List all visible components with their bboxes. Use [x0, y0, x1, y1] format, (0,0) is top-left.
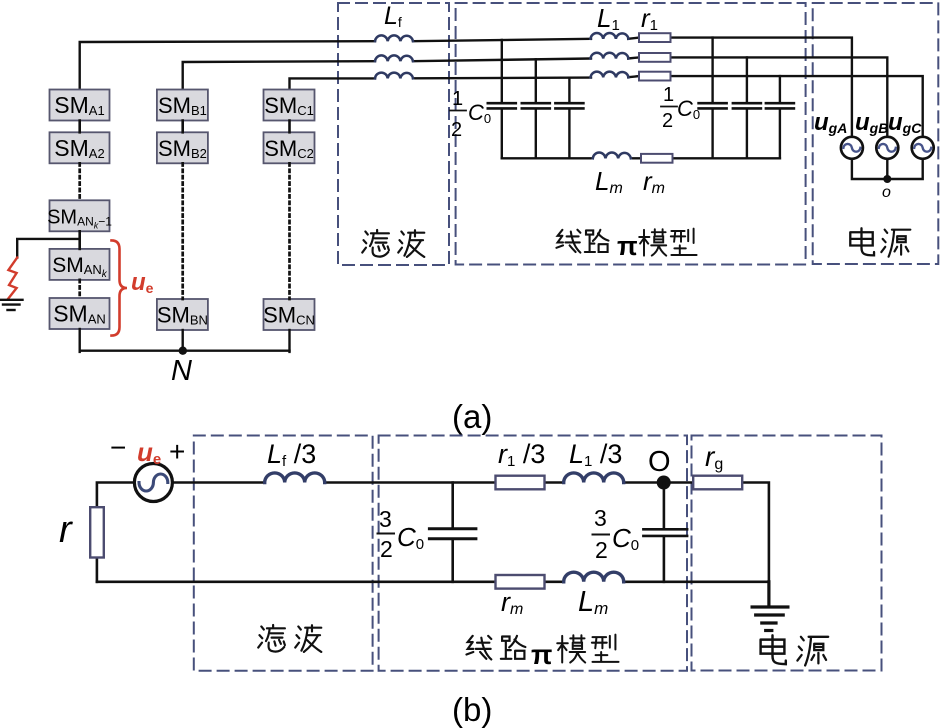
- SM column C box SMC1: [264, 90, 315, 121]
- svg-text:3: 3: [379, 506, 392, 532]
- section label: source (a): [850, 228, 874, 255]
- AC source ugB: [876, 137, 898, 159]
- wire SMB1-SMB2 link: [181, 121, 184, 133]
- ground symbol (a): [1, 300, 23, 310]
- inductor L1 phase C: [591, 72, 629, 78]
- wire capacitor bank 2 drop B: [746, 57, 748, 158]
- dotted link SMC2 to SMCN: [288, 163, 291, 299]
- svg-text:2: 2: [451, 119, 462, 141]
- label 1/2 C0 right: [661, 84, 700, 132]
- inductor Lf phase A: [375, 35, 413, 41]
- resistor r1/3 (b): [496, 476, 545, 490]
- svg-text:1: 1: [452, 88, 463, 110]
- resistor r (vertical, b): [90, 507, 104, 557]
- svg-text:Lm: Lm: [578, 586, 608, 618]
- node N dot: [179, 347, 187, 355]
- svg-text:Lf /3: Lf /3: [267, 439, 316, 470]
- resistor rm (b): [496, 575, 545, 589]
- section label: source (b): [761, 635, 786, 664]
- resistor r1 phase B: [639, 53, 671, 62]
- capacitor C0/2 bank1 C: [555, 103, 583, 108]
- svg-text:π: π: [531, 639, 552, 670]
- svg-text:ugB: ugB: [855, 109, 888, 136]
- svg-text:(a): (a): [452, 398, 492, 435]
- AC source ugA: [841, 137, 863, 159]
- section label: line pi model (b): [466, 636, 491, 660]
- svg-text:L1: L1: [597, 3, 620, 34]
- label 3/2 C0 right (b): [593, 505, 640, 563]
- section label: line pi model (a): [556, 230, 580, 253]
- SM column A box SMAN: [50, 298, 110, 329]
- SM column B box SMB2: [157, 132, 208, 163]
- wire phase C: [290, 76, 923, 137]
- SM column B box SMB1: [157, 90, 208, 121]
- svg-text:o: o: [882, 184, 891, 201]
- inductor L1 phase B: [591, 53, 629, 59]
- dashed box: source section (b): [692, 436, 882, 671]
- inductor Lf/3: [265, 473, 325, 483]
- svg-text:Lf: Lf: [384, 2, 402, 30]
- svg-text:L1 /3: L1 /3: [569, 439, 622, 470]
- dotted link SMANk to SMAN: [78, 280, 81, 298]
- wire SMC1-SMC2 link: [288, 121, 291, 133]
- capacitor 3/2 C0 left (b): [429, 529, 476, 539]
- node O dot (b): [657, 476, 671, 490]
- svg-text:r1: r1: [641, 3, 658, 34]
- dashed box: source section (a): [813, 3, 939, 264]
- svg-text:1: 1: [663, 84, 674, 106]
- wire phase A: [80, 38, 852, 137]
- wire bottom bus N: [80, 350, 290, 352]
- svg-text:3: 3: [594, 505, 607, 531]
- svg-text:rg: rg: [705, 441, 723, 473]
- SM column A box SMANk-1: [47, 200, 112, 231]
- wire ground branch from SM column A: [17, 239, 79, 258]
- svg-text:rm: rm: [501, 587, 523, 618]
- svg-text:Lm: Lm: [595, 166, 623, 197]
- capacitor C0/2 bank2 A: [699, 103, 727, 108]
- label 3/2 C0 left (b): [378, 506, 425, 562]
- capacitor C0/2 bank2 B: [733, 103, 761, 108]
- resistor rg (b): [693, 476, 742, 490]
- section label: filter (b): [258, 625, 285, 652]
- dashed box: line pi-model section (b): [379, 436, 687, 671]
- dotted link SMA2 to SMANk-1: [78, 163, 81, 200]
- wire SMAN to bottom bus: [78, 329, 80, 352]
- capacitor C0/2 bank1 A: [488, 103, 516, 108]
- svg-text:C0: C0: [612, 523, 639, 554]
- grounding resistor zigzag (red): [8, 258, 17, 299]
- dotted link SMB2 to SMBN: [181, 163, 184, 299]
- wire capacitor bank 2 drop C: [779, 76, 781, 158]
- resistor r1 phase C: [639, 72, 671, 81]
- wire capacitor 1 drop (b): [451, 483, 454, 582]
- svg-text:π: π: [617, 231, 638, 261]
- capacitor 3/2 C0 right (b): [643, 529, 687, 536]
- label 1/2 C0 left: [450, 88, 491, 141]
- wire bottom rail (b): [97, 580, 769, 583]
- SM column A box SMANk: [50, 249, 110, 280]
- inductor L1/3 (b): [564, 473, 624, 483]
- svg-text:C0: C0: [397, 522, 424, 553]
- SM column C box SMCN: [263, 299, 315, 330]
- svg-text:2: 2: [380, 536, 393, 562]
- wire top rail (b): [97, 483, 769, 582]
- inductor Lm (b): [564, 572, 624, 582]
- wire bottom return bus of pi model: [502, 157, 780, 159]
- wire phase B: [183, 57, 888, 136]
- svg-text:rm: rm: [643, 166, 665, 197]
- dashed box: filter section (b): [194, 436, 373, 671]
- svg-text:C0: C0: [677, 96, 700, 122]
- svg-text:r1 /3: r1 /3: [498, 439, 545, 470]
- svg-text:−: −: [110, 432, 126, 463]
- SM column A box SMA2: [50, 132, 110, 163]
- svg-text:2: 2: [595, 537, 608, 563]
- AC source ue (b): [134, 464, 172, 502]
- inductor Lf phase B: [375, 55, 413, 61]
- svg-text:O: O: [648, 446, 671, 478]
- node o dot: [883, 175, 891, 183]
- wire capacitor 2 drop (b): [663, 483, 666, 582]
- wire capacitor bank 1 drop B: [535, 59, 537, 158]
- red brace for ue span: [112, 240, 128, 335]
- svg-text:+: +: [169, 436, 185, 467]
- svg-text:N: N: [171, 355, 192, 387]
- SM column B box SMBN: [157, 299, 208, 330]
- wire capacitor bank 2 drop A: [711, 38, 713, 159]
- svg-text:ugC: ugC: [888, 109, 922, 136]
- wire capacitor bank 1 drop A: [501, 40, 503, 158]
- wire SMCN to bottom bus: [288, 330, 290, 352]
- wire SMBN to bottom bus: [181, 330, 183, 352]
- wire source neutral bus: [852, 159, 923, 179]
- capacitor C0/2 bank2 C: [766, 103, 794, 108]
- dashed box: line pi-model section (a): [456, 3, 806, 265]
- resistor rm: [641, 154, 673, 163]
- svg-text:ue: ue: [131, 269, 154, 296]
- section label: filter (a): [362, 230, 389, 257]
- SM column C box SMC2: [264, 132, 315, 163]
- svg-text:2: 2: [662, 110, 673, 132]
- wire capacitor bank 1 drop C: [568, 78, 570, 158]
- ground symbol (b): [752, 582, 788, 631]
- inductor Lm: [593, 153, 631, 159]
- capacitor C0/2 bank1 B: [522, 103, 550, 108]
- SM column A box SMA1: [50, 90, 110, 121]
- wire SMANk-1 to SMANk link: [78, 231, 81, 249]
- svg-text:(b): (b): [452, 691, 492, 728]
- AC source ugC: [912, 137, 934, 159]
- resistor r1 phase A: [639, 33, 671, 42]
- svg-text:ugA: ugA: [814, 109, 847, 136]
- svg-text:r: r: [59, 509, 73, 551]
- dashed box: filter section (a): [338, 3, 449, 265]
- inductor Lf phase C: [375, 73, 413, 79]
- inductor L1 phase A: [591, 33, 629, 39]
- svg-text:ue: ue: [137, 437, 161, 468]
- wire SMA1-SMA2 link: [78, 121, 81, 133]
